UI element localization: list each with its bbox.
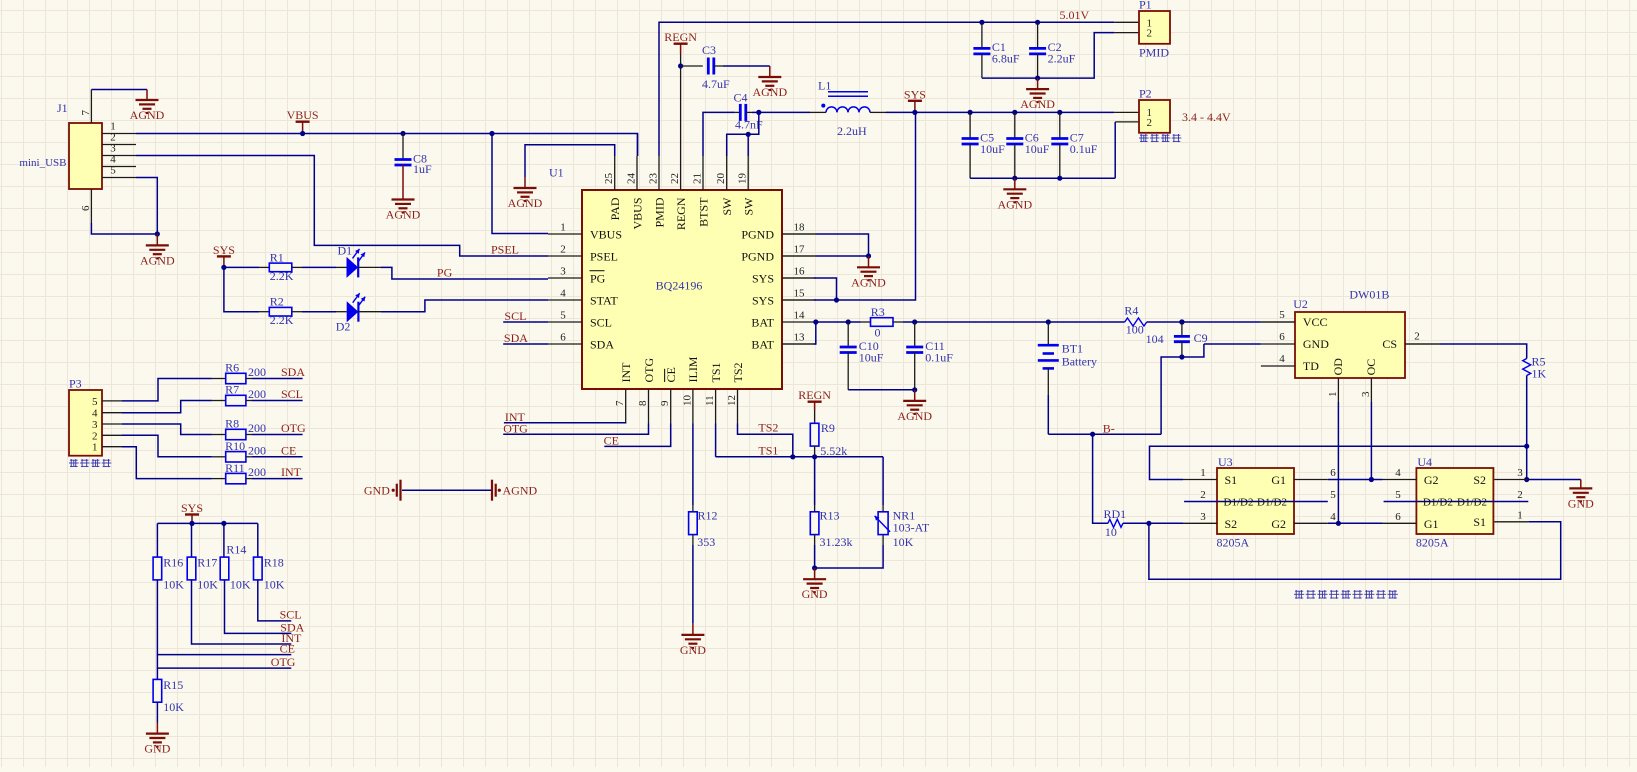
svg-text:200: 200 bbox=[248, 387, 266, 401]
wire VBUS to U1 pin24 bbox=[637, 134, 639, 157]
power port SYS (rail) bbox=[904, 87, 926, 115]
wire STAT net (D2 to U1.4) bbox=[358, 300, 548, 312]
svg-text:200: 200 bbox=[248, 465, 266, 479]
wire U1 PAD to AGND bbox=[525, 145, 615, 177]
power port REGN (top) bbox=[664, 30, 697, 54]
U4 pins bbox=[1383, 467, 1529, 531]
svg-text:REGN: REGN bbox=[798, 388, 831, 402]
U1 left pins 1-6 bbox=[548, 222, 622, 352]
svg-text:SCL: SCL bbox=[590, 315, 612, 329]
junction VBUS to U1 pin1 bbox=[489, 131, 494, 136]
resistor R18 bbox=[254, 523, 285, 591]
wire SYS to R2 bbox=[224, 267, 269, 311]
svg-text:1: 1 bbox=[560, 222, 566, 234]
ground GND (R13) bbox=[802, 568, 828, 601]
svg-text:AGND: AGND bbox=[130, 108, 165, 122]
svg-text:2.2uF: 2.2uF bbox=[1048, 52, 1076, 66]
svg-text:D2: D2 bbox=[336, 319, 351, 333]
U1 right pins 13-18 bbox=[741, 222, 816, 352]
net label INT (U1) bbox=[505, 410, 526, 424]
svg-text:R18: R18 bbox=[264, 555, 284, 569]
transistor U4 (8205A) body bbox=[1416, 455, 1494, 550]
ground GND (R12) bbox=[680, 624, 706, 657]
svg-text:INT: INT bbox=[281, 465, 302, 479]
svg-text:6.8uF: 6.8uF bbox=[992, 52, 1020, 66]
svg-text:200: 200 bbox=[248, 421, 266, 435]
svg-text:CE: CE bbox=[604, 434, 619, 448]
svg-text:R6: R6 bbox=[225, 361, 239, 375]
wire P3.1 to R11 bbox=[122, 447, 212, 479]
svg-text:R2: R2 bbox=[270, 295, 284, 309]
svg-text:10K: 10K bbox=[230, 577, 251, 591]
svg-text:ILIM: ILIM bbox=[686, 356, 700, 382]
svg-text:BTST: BTST bbox=[696, 197, 710, 227]
svg-text:U2: U2 bbox=[1293, 297, 1308, 311]
connector J1 (mini_USB) bbox=[19, 101, 102, 189]
text 主供电口 bbox=[1139, 134, 1181, 142]
svg-text:SYS: SYS bbox=[181, 501, 203, 515]
J1 pin 6 bbox=[80, 189, 92, 223]
power port SYS (pull-ups) bbox=[181, 501, 203, 526]
svg-text:TS2: TS2 bbox=[758, 421, 778, 435]
svg-text:4: 4 bbox=[560, 288, 566, 300]
wire TS1 net bbox=[716, 424, 884, 460]
svg-text:BAT: BAT bbox=[751, 315, 774, 329]
svg-text:20: 20 bbox=[715, 173, 727, 185]
svg-text:D1/D2: D1/D2 bbox=[1224, 496, 1254, 508]
capacitor C2 bbox=[1029, 20, 1076, 78]
ground AGND (C10/C11) bbox=[897, 390, 932, 423]
inductor L1 bbox=[759, 79, 886, 139]
net label OTG (U1) bbox=[503, 422, 528, 436]
svg-text:4.7uF: 4.7uF bbox=[702, 77, 730, 91]
svg-text:OD: OD bbox=[1331, 358, 1345, 376]
svg-text:6: 6 bbox=[1330, 467, 1336, 479]
capacitor C1 bbox=[973, 20, 1020, 78]
svg-text:23: 23 bbox=[648, 173, 660, 185]
svg-text:13: 13 bbox=[794, 332, 806, 344]
wire P2 pin2 bbox=[1115, 122, 1139, 178]
capacitor C3 bbox=[681, 43, 730, 91]
svg-text:PG: PG bbox=[437, 266, 453, 280]
wire B- to RD1 bbox=[1093, 434, 1108, 523]
wire U4 S2 to GND bbox=[1528, 480, 1581, 489]
wire P3.2 to R10 bbox=[122, 435, 212, 457]
power port VBUS bbox=[287, 108, 319, 136]
svg-text:BT1: BT1 bbox=[1062, 342, 1083, 356]
junction C8 top bbox=[400, 131, 405, 136]
thermistor NR1 bbox=[815, 457, 930, 568]
svg-text:SCL: SCL bbox=[281, 387, 303, 401]
svg-text:U1: U1 bbox=[549, 166, 564, 180]
svg-text:SCL: SCL bbox=[504, 309, 526, 323]
svg-text:Battery: Battery bbox=[1062, 355, 1097, 369]
svg-text:R1: R1 bbox=[270, 250, 284, 264]
wire PSEL net (J1.3 to U1.2) bbox=[136, 156, 548, 257]
svg-text:PSEL: PSEL bbox=[491, 242, 519, 256]
wire/net label SDA (R6) bbox=[252, 365, 306, 379]
svg-text:SYS: SYS bbox=[752, 271, 774, 285]
resistor R12 bbox=[689, 424, 718, 624]
resistor R7 bbox=[212, 383, 266, 406]
svg-text:B-: B- bbox=[1103, 421, 1115, 435]
U2 bottom pins OD OC bbox=[1327, 358, 1378, 402]
net label 5.01V bbox=[1060, 8, 1090, 22]
svg-text:PGND: PGND bbox=[741, 227, 774, 241]
svg-text:AGND: AGND bbox=[386, 208, 421, 222]
svg-text:R14: R14 bbox=[226, 542, 246, 556]
svg-text:CE: CE bbox=[281, 443, 296, 457]
svg-text:AGND: AGND bbox=[851, 275, 886, 289]
svg-text:1: 1 bbox=[1200, 467, 1206, 479]
svg-text:22: 22 bbox=[669, 173, 681, 184]
wire OD net bbox=[1328, 402, 1383, 526]
svg-text:GND: GND bbox=[802, 587, 828, 601]
svg-text:SYS: SYS bbox=[752, 293, 774, 307]
wire R2 to D2 bbox=[292, 311, 347, 313]
svg-text:S1: S1 bbox=[1473, 515, 1486, 529]
svg-text:10uF: 10uF bbox=[980, 142, 1005, 156]
svg-text:SDA: SDA bbox=[281, 365, 305, 379]
svg-text:5: 5 bbox=[1395, 489, 1401, 501]
ground AGND (J1 top) bbox=[130, 90, 165, 123]
svg-text:8205A: 8205A bbox=[1217, 536, 1250, 550]
svg-text:mini_USB: mini_USB bbox=[19, 157, 66, 169]
svg-text:5.52k: 5.52k bbox=[820, 444, 847, 458]
svg-text:R12: R12 bbox=[698, 508, 718, 522]
svg-text:4: 4 bbox=[92, 408, 98, 420]
svg-text:8: 8 bbox=[637, 400, 649, 406]
svg-text:DW01B: DW01B bbox=[1349, 288, 1389, 302]
svg-text:PSEL: PSEL bbox=[590, 249, 618, 263]
net label CE (U1) bbox=[604, 434, 619, 448]
resistor R9 bbox=[810, 410, 847, 458]
wire P3.3 to R8 bbox=[122, 424, 212, 435]
svg-text:D1/D2: D1/D2 bbox=[1423, 496, 1453, 508]
svg-text:R4: R4 bbox=[1124, 303, 1138, 317]
wire/net label CE (R10) bbox=[252, 443, 303, 457]
wire SDA (R14) bbox=[225, 580, 305, 635]
svg-text:2.2K: 2.2K bbox=[270, 269, 294, 283]
ground AGND (J1 bottom) bbox=[140, 234, 175, 267]
svg-text:C4: C4 bbox=[734, 90, 748, 104]
wire OTG (R15) bbox=[157, 655, 295, 669]
wire SYS to R1 bbox=[224, 266, 269, 268]
wire OTG net bbox=[503, 424, 648, 435]
svg-text:2.2uH: 2.2uH bbox=[837, 124, 867, 138]
svg-text:R17: R17 bbox=[197, 555, 217, 569]
resistor R17 bbox=[187, 523, 218, 591]
wire PG net (D1 to U1.3) bbox=[358, 267, 548, 279]
svg-text:R15: R15 bbox=[163, 678, 183, 692]
svg-text:BAT: BAT bbox=[751, 337, 774, 351]
power port SYS (LED branch) bbox=[213, 243, 235, 270]
wire U1 pin13/14 tie bbox=[782, 319, 818, 344]
svg-text:21: 21 bbox=[692, 173, 704, 184]
svg-text:PG: PG bbox=[590, 271, 606, 285]
svg-text:5: 5 bbox=[92, 396, 98, 408]
svg-text:AGND: AGND bbox=[897, 409, 932, 423]
svg-text:VBUS: VBUS bbox=[630, 198, 644, 230]
resistor R16 bbox=[153, 523, 184, 591]
net label 3.4 - 4.4V bbox=[1182, 110, 1231, 124]
svg-text:GND: GND bbox=[1568, 496, 1594, 510]
wire SW node bbox=[727, 110, 762, 156]
svg-text:INT: INT bbox=[619, 362, 633, 383]
wire TS2 net bbox=[738, 424, 793, 457]
svg-text:GND: GND bbox=[364, 483, 390, 497]
wire PMID 5.01V rail bbox=[659, 22, 1139, 156]
svg-text:1K: 1K bbox=[1532, 366, 1547, 380]
svg-text:2: 2 bbox=[92, 430, 98, 442]
svg-text:AGND: AGND bbox=[503, 483, 538, 497]
wire CS to R5 bbox=[1405, 344, 1527, 359]
resistor RD1 bbox=[1104, 507, 1127, 539]
svg-text:GND: GND bbox=[680, 643, 706, 657]
wire BAT rail left bbox=[816, 319, 861, 324]
svg-text:C9: C9 bbox=[1194, 331, 1208, 345]
svg-text:R10: R10 bbox=[225, 439, 245, 453]
net tie GND-AGND bbox=[364, 480, 538, 501]
svg-text:OC: OC bbox=[1364, 359, 1378, 376]
svg-text:PGND: PGND bbox=[741, 249, 774, 263]
svg-text:R13: R13 bbox=[820, 508, 840, 522]
wire C3 to AGND bbox=[714, 66, 770, 77]
wire R1 to D1 bbox=[292, 266, 347, 268]
svg-text:R16: R16 bbox=[163, 555, 183, 569]
svg-text:GND: GND bbox=[144, 742, 170, 756]
svg-text:10: 10 bbox=[681, 395, 693, 407]
wire INT (R17) bbox=[192, 580, 303, 645]
wire CE (R16) bbox=[157, 580, 295, 656]
svg-text:CE: CE bbox=[280, 642, 295, 656]
connector P2 bbox=[1139, 87, 1170, 133]
junction R13/NR1 bbox=[812, 565, 817, 570]
svg-text:P1: P1 bbox=[1139, 0, 1152, 12]
svg-text:15: 15 bbox=[794, 288, 806, 300]
wire P3.5 to R6 bbox=[122, 379, 212, 401]
svg-text:8205A: 8205A bbox=[1416, 536, 1449, 550]
wire SYS rail bbox=[886, 111, 1139, 113]
ground AGND (U1 PAD) bbox=[508, 177, 543, 210]
svg-text:J1: J1 bbox=[57, 101, 68, 115]
svg-text:U4: U4 bbox=[1417, 455, 1432, 469]
svg-text:VBUS: VBUS bbox=[590, 227, 622, 241]
svg-text:5: 5 bbox=[1279, 309, 1285, 321]
svg-text:VBUS: VBUS bbox=[287, 108, 319, 122]
svg-text:1: 1 bbox=[1517, 509, 1523, 521]
svg-text:3: 3 bbox=[1200, 511, 1206, 523]
svg-text:TS1: TS1 bbox=[709, 362, 723, 382]
svg-text:31.23k: 31.23k bbox=[820, 535, 853, 549]
net label TS2 bbox=[758, 421, 778, 435]
svg-text:9: 9 bbox=[659, 400, 671, 406]
svg-text:1: 1 bbox=[1327, 392, 1339, 398]
svg-text:SW: SW bbox=[742, 197, 756, 216]
wire R4 to U2 VCC bbox=[1147, 321, 1295, 323]
svg-text:R11: R11 bbox=[225, 461, 245, 475]
wire REGN to U1 pin22 bbox=[678, 54, 683, 156]
svg-text:D1/D2: D1/D2 bbox=[1257, 496, 1287, 508]
svg-text:12: 12 bbox=[726, 395, 738, 406]
svg-text:AGND: AGND bbox=[140, 253, 175, 267]
resistor R11 bbox=[212, 461, 266, 484]
svg-text:D1: D1 bbox=[338, 243, 353, 257]
wire C1-C2 bottom to P1 pin2 bbox=[982, 33, 1139, 81]
wire RD1 to U3 S2 bbox=[1123, 521, 1183, 526]
svg-text:3: 3 bbox=[1360, 391, 1372, 397]
op-amp U1 (BQ24196) body bbox=[549, 166, 782, 390]
svg-text:4: 4 bbox=[1279, 353, 1285, 365]
svg-text:11: 11 bbox=[704, 395, 716, 406]
svg-text:103-AT: 103-AT bbox=[893, 520, 930, 534]
resistor R10 bbox=[212, 439, 266, 462]
svg-text:PAD: PAD bbox=[608, 197, 622, 220]
LED D1 bbox=[338, 243, 366, 278]
connector P3 bbox=[69, 377, 102, 456]
wire/net label INT (R11) bbox=[252, 465, 303, 479]
ground AGND (C2) bbox=[1020, 78, 1055, 111]
wire P3.4 to R7 bbox=[122, 401, 212, 413]
wire PGND pins to AGND bbox=[782, 234, 871, 267]
svg-text:G1: G1 bbox=[1271, 473, 1286, 487]
wire J1.7 to AGND bbox=[91, 89, 147, 91]
svg-text:100: 100 bbox=[1126, 323, 1144, 337]
wire SCL to U1.5 bbox=[503, 321, 548, 323]
svg-text:CE: CE bbox=[664, 367, 678, 382]
svg-text:P2: P2 bbox=[1139, 87, 1152, 101]
svg-text:200: 200 bbox=[248, 365, 266, 379]
svg-text:S1: S1 bbox=[1225, 473, 1238, 487]
svg-text:19: 19 bbox=[737, 173, 749, 185]
capacitor C6 bbox=[1006, 110, 1050, 178]
wire pull-up rail bbox=[157, 521, 257, 526]
svg-text:6: 6 bbox=[80, 205, 92, 211]
ground GND (R15) bbox=[144, 723, 170, 756]
svg-text:14: 14 bbox=[794, 310, 806, 322]
svg-text:2: 2 bbox=[560, 244, 566, 256]
net label TS1 bbox=[758, 443, 778, 457]
svg-text:4: 4 bbox=[1330, 511, 1336, 523]
svg-text:BQ24196: BQ24196 bbox=[656, 279, 703, 293]
transistor U3 (8205A) body bbox=[1217, 455, 1295, 550]
svg-text:2: 2 bbox=[1147, 117, 1153, 129]
svg-text:SDA: SDA bbox=[504, 331, 528, 345]
wire U2 GND net bbox=[1161, 344, 1261, 434]
svg-text:2.2K: 2.2K bbox=[270, 313, 294, 327]
svg-text:OTG: OTG bbox=[503, 422, 528, 436]
resistor R3 bbox=[861, 305, 904, 339]
op-amp U2 (DW01B) body bbox=[1293, 288, 1405, 378]
net label SCL (U1) bbox=[504, 309, 526, 323]
svg-text:3: 3 bbox=[560, 266, 566, 278]
wire SDA to U1.6 bbox=[503, 343, 548, 345]
svg-text:2: 2 bbox=[1517, 489, 1523, 501]
svg-text:200: 200 bbox=[248, 443, 266, 457]
svg-text:6: 6 bbox=[1395, 511, 1401, 523]
svg-text:5: 5 bbox=[560, 310, 566, 322]
svg-text:2: 2 bbox=[1147, 28, 1153, 40]
resistor R14 bbox=[220, 523, 251, 591]
svg-text:6: 6 bbox=[560, 332, 566, 344]
net label PG bbox=[437, 266, 453, 280]
svg-text:CS: CS bbox=[1382, 337, 1397, 351]
resistor R6 bbox=[212, 361, 266, 384]
power port REGN (R9) bbox=[798, 388, 831, 410]
wire SYS to U1 SYS pins bbox=[782, 112, 916, 300]
U1 bottom pins 7-12 bbox=[614, 356, 745, 423]
svg-text:10uF: 10uF bbox=[1025, 142, 1050, 156]
text 锂离子电池保护电路 bbox=[1294, 590, 1398, 599]
wire BAT rail right bbox=[903, 319, 1185, 324]
wire/net label OTG (R8) bbox=[252, 421, 306, 435]
J1 pin 7 bbox=[80, 90, 92, 124]
resistor R4 bbox=[1124, 303, 1146, 336]
wire CE net bbox=[604, 424, 670, 447]
svg-text:16: 16 bbox=[794, 266, 806, 278]
capacitor C11 bbox=[906, 322, 953, 390]
svg-text:10K: 10K bbox=[197, 577, 218, 591]
svg-text:PMID: PMID bbox=[1139, 46, 1169, 60]
svg-text:S2: S2 bbox=[1225, 517, 1238, 531]
svg-text:10: 10 bbox=[1105, 525, 1117, 539]
svg-text:10K: 10K bbox=[893, 535, 914, 549]
wire C10-C11 bottom rail bbox=[848, 387, 917, 392]
U1 top pins 19-25 bbox=[603, 156, 755, 230]
wire B- net bbox=[1048, 395, 1161, 437]
wire U3 D1/D2 cross bbox=[1184, 501, 1328, 503]
svg-text:24: 24 bbox=[626, 173, 638, 185]
svg-text:10K: 10K bbox=[264, 577, 285, 591]
wire VBUS to U1 pin1 bbox=[492, 134, 548, 234]
svg-text:3: 3 bbox=[1517, 467, 1523, 479]
resistor R2 bbox=[269, 295, 293, 328]
capacitor C7 bbox=[1051, 110, 1098, 178]
svg-text:R8: R8 bbox=[225, 417, 239, 431]
svg-text:5: 5 bbox=[1330, 489, 1336, 501]
wire/net label SCL (R7) bbox=[252, 387, 303, 401]
svg-text:OTG: OTG bbox=[271, 655, 296, 669]
svg-text:G2: G2 bbox=[1271, 517, 1286, 531]
svg-text:SYS: SYS bbox=[213, 243, 235, 257]
svg-text:AGND: AGND bbox=[1020, 97, 1055, 111]
capacitor C10 bbox=[840, 322, 884, 390]
resistor R1 bbox=[269, 250, 293, 283]
capacitor C4 bbox=[734, 90, 764, 131]
svg-text:0.1uF: 0.1uF bbox=[925, 351, 953, 365]
svg-text:TS2: TS2 bbox=[731, 362, 745, 382]
svg-text:G2: G2 bbox=[1424, 473, 1439, 487]
svg-text:G1: G1 bbox=[1424, 517, 1439, 531]
svg-text:6: 6 bbox=[1279, 331, 1285, 343]
svg-text:10K: 10K bbox=[163, 577, 184, 591]
capacitor C9 bbox=[1146, 319, 1208, 359]
svg-text:U3: U3 bbox=[1218, 455, 1233, 469]
LED D2 bbox=[336, 293, 366, 333]
svg-text:353: 353 bbox=[697, 535, 715, 549]
ground AGND (C8) bbox=[386, 165, 421, 222]
svg-text:VCC: VCC bbox=[1303, 315, 1328, 329]
wire bottom loop (U4 S1) bbox=[1149, 522, 1561, 579]
wire U1 pin16 bbox=[782, 278, 837, 300]
svg-text:SW: SW bbox=[720, 197, 734, 216]
net label SDA (U1) bbox=[504, 331, 528, 345]
svg-text:AGND: AGND bbox=[752, 85, 787, 99]
svg-text:17: 17 bbox=[794, 244, 806, 256]
svg-text:OTG: OTG bbox=[642, 358, 656, 383]
svg-text:R7: R7 bbox=[225, 383, 239, 397]
wire OC net bbox=[1328, 402, 1383, 482]
